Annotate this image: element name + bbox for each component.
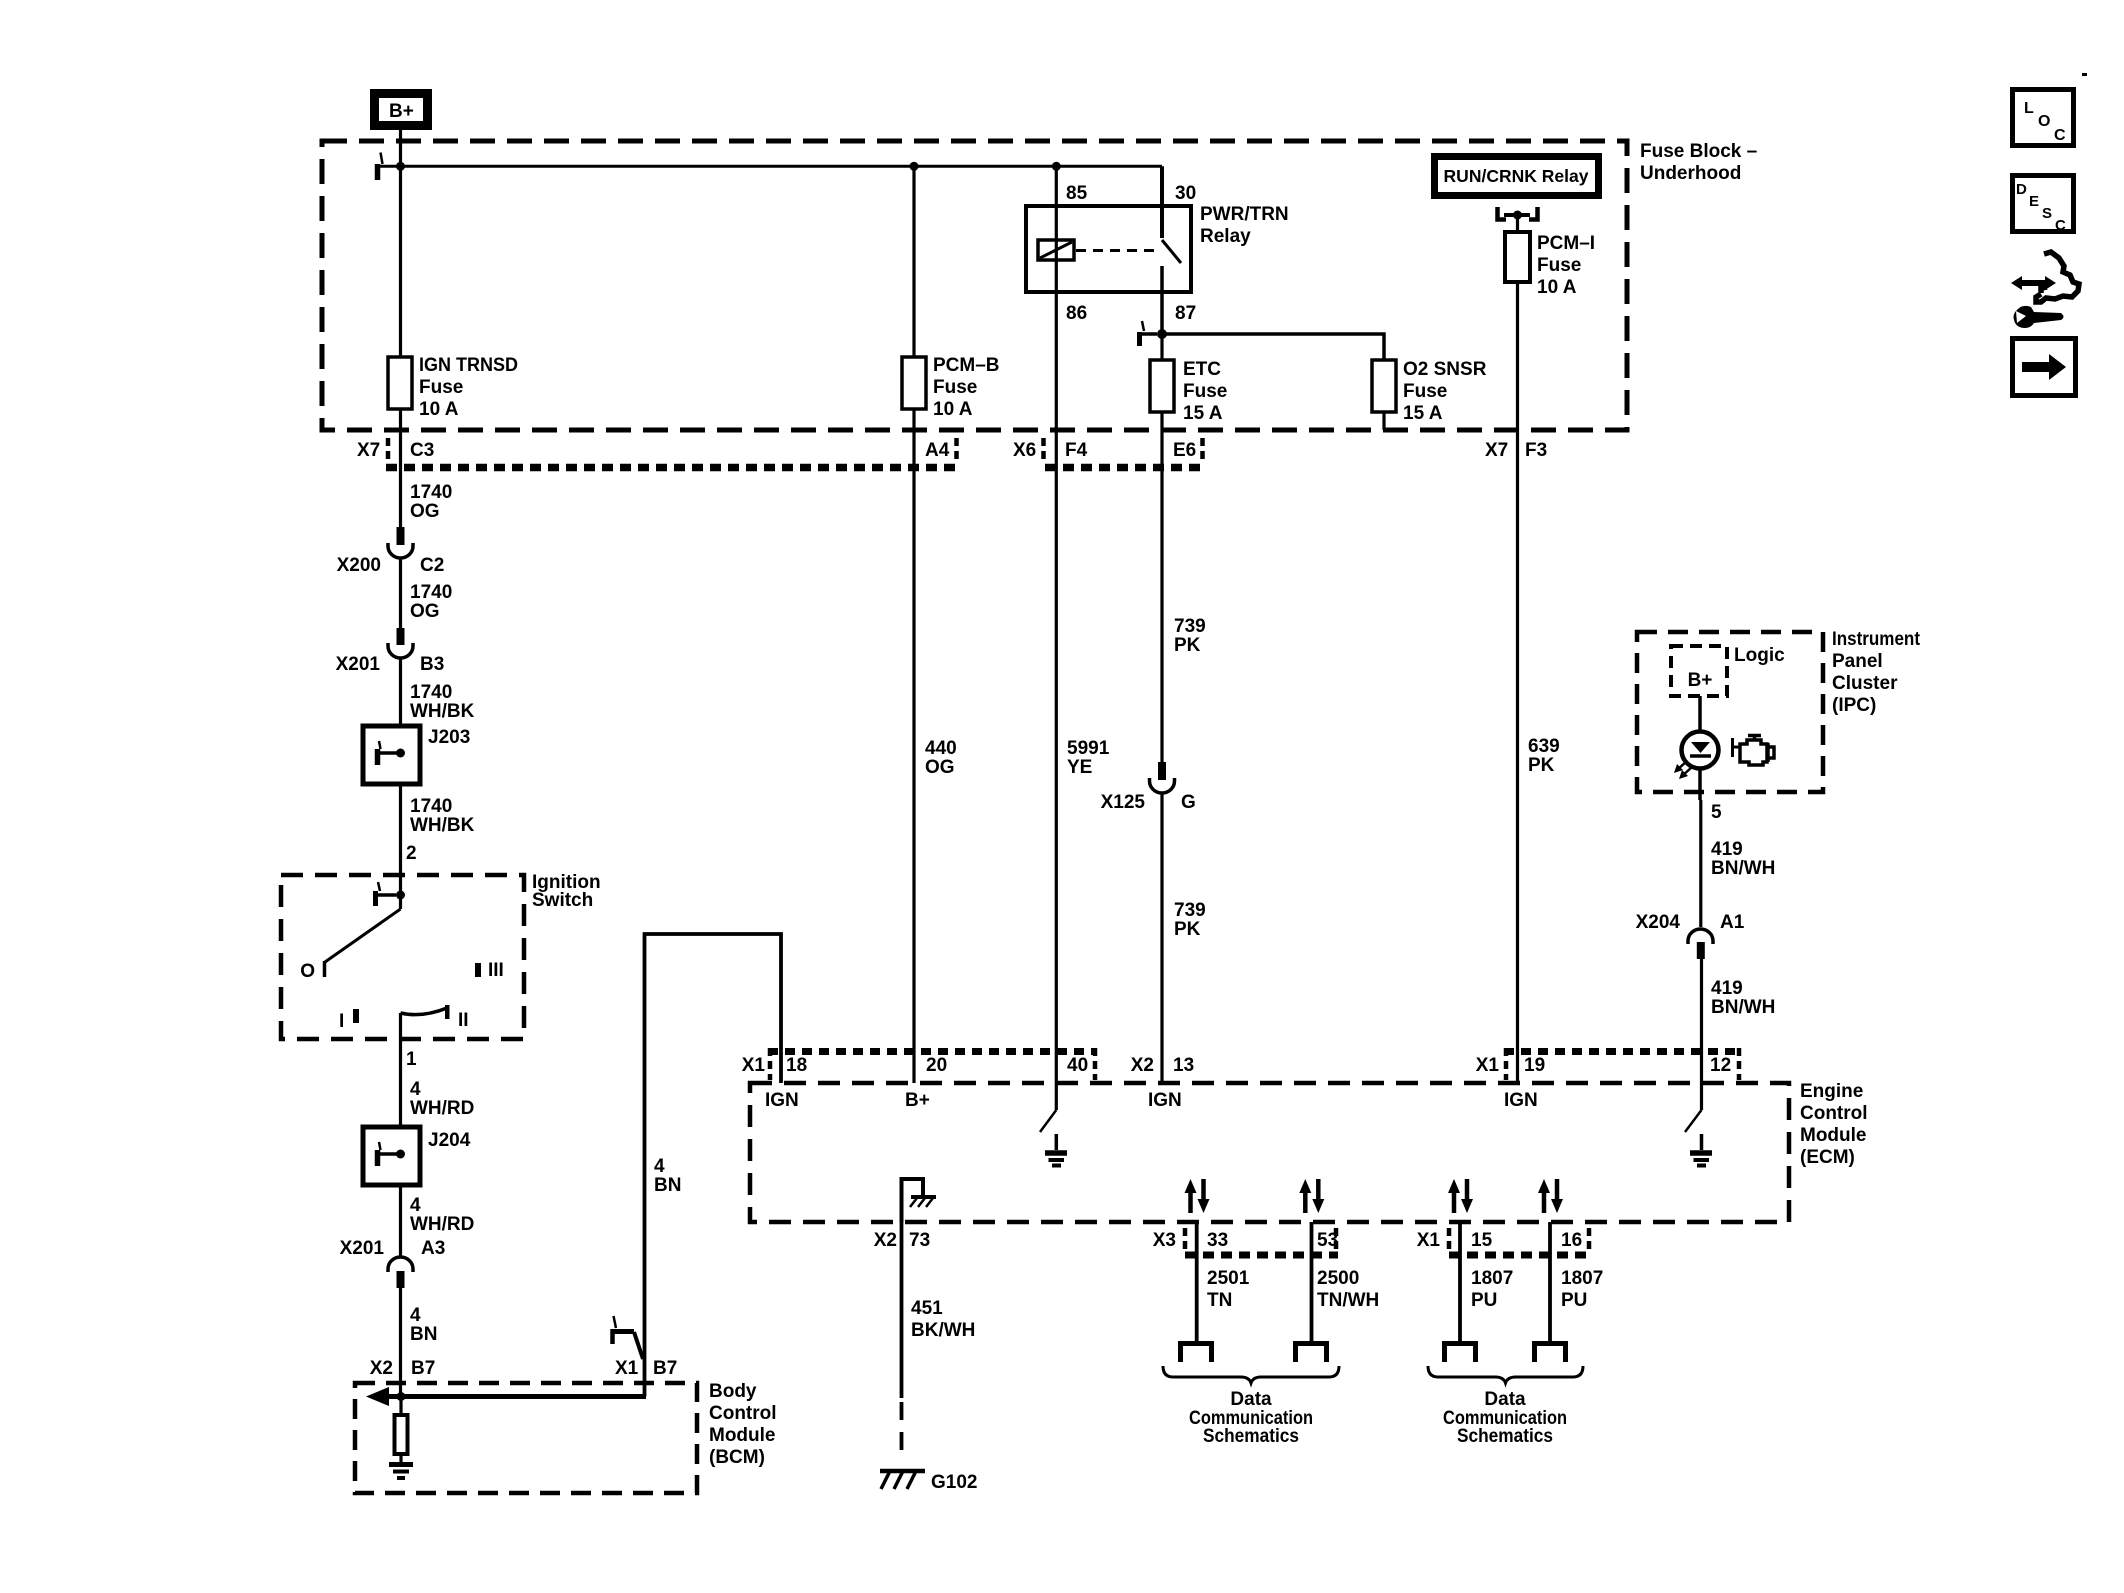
ECM bottom connector X1 dotted outline bbox=[1449, 1228, 1591, 1255]
svg-text:PCM–I: PCM–I bbox=[1537, 233, 1595, 254]
wire ECM pin 15 drop bbox=[1458, 1222, 1462, 1341]
wire label 2501 TN bbox=[1207, 1268, 1250, 1311]
svg-text:C3: C3 bbox=[410, 440, 434, 461]
svg-text:RUN/CRNK Relay: RUN/CRNK Relay bbox=[1444, 166, 1589, 186]
svg-text:F4: F4 bbox=[1065, 440, 1088, 461]
icon DESC box bbox=[2013, 176, 2074, 235]
svg-text:TN/WH: TN/WH bbox=[1317, 1290, 1379, 1311]
wire label 5991 YE bbox=[1067, 738, 1110, 778]
off-page terminator pin 16 bbox=[1535, 1344, 1566, 1363]
svg-text:D: D bbox=[2016, 181, 2027, 198]
IPC logic box bbox=[1671, 645, 1785, 696]
svg-text:Fuse: Fuse bbox=[933, 377, 977, 398]
svg-text:III: III bbox=[488, 960, 504, 981]
wire X204 to ECM pin 12 bbox=[1700, 959, 1703, 1083]
svg-text:WH/RD: WH/RD bbox=[410, 1098, 474, 1119]
svg-text:X1: X1 bbox=[1476, 1055, 1500, 1076]
wire ECM pin 73 to G102 bbox=[900, 1222, 904, 1398]
wire ECM pin 33 drop bbox=[1195, 1222, 1199, 1341]
wire 87 junction to ETC fuse bbox=[1160, 334, 1163, 361]
svg-text:86: 86 bbox=[1066, 303, 1087, 324]
wire ECM pin 53 drop bbox=[1310, 1222, 1314, 1341]
svg-text:PK: PK bbox=[1528, 755, 1555, 776]
wire J204 to X201 A3 bbox=[399, 1185, 402, 1257]
svg-text:Module: Module bbox=[1800, 1125, 1867, 1146]
node junction at PWR/TRN coil tap bbox=[1052, 162, 1061, 171]
connector X204 A1 inline bbox=[1636, 912, 1745, 959]
ECM bottom pin labels bbox=[1153, 1230, 1582, 1251]
svg-text:1: 1 bbox=[406, 1049, 417, 1070]
wire O2 fuse to block edge bbox=[1382, 412, 1385, 430]
wire logic to LED bbox=[1698, 696, 1702, 732]
wire label 1807 PU second bbox=[1561, 1268, 1603, 1311]
fuse ETC 15A bbox=[1150, 359, 1227, 424]
svg-text:Panel: Panel bbox=[1832, 651, 1883, 672]
svg-text:Switch: Switch bbox=[532, 890, 593, 911]
svg-text:BN/WH: BN/WH bbox=[1711, 858, 1775, 879]
svg-text:A4: A4 bbox=[925, 440, 950, 461]
off-page terminator pin 15 bbox=[1445, 1344, 1476, 1363]
icon harness routing bbox=[2011, 252, 2079, 328]
IPC box bbox=[1637, 629, 1921, 792]
ECM bottom connector X3 dotted outline bbox=[1185, 1228, 1338, 1255]
wire LED to IPC pin 5 bbox=[1698, 768, 1702, 800]
svg-text:BN: BN bbox=[654, 1175, 681, 1196]
brace data link 2 bbox=[1428, 1366, 1583, 1383]
svg-text:Fuse: Fuse bbox=[1183, 381, 1227, 402]
wire label 4 BN riser bbox=[654, 1156, 681, 1196]
svg-text:73: 73 bbox=[909, 1230, 930, 1251]
svg-text:WH/RD: WH/RD bbox=[410, 1214, 474, 1235]
svg-text:WH/BK: WH/BK bbox=[410, 701, 475, 722]
svg-text:B+: B+ bbox=[389, 101, 414, 122]
svg-text:X125: X125 bbox=[1101, 792, 1146, 813]
svg-text:85: 85 bbox=[1066, 183, 1088, 204]
svg-text:X201: X201 bbox=[340, 1238, 385, 1259]
svg-text:J203: J203 bbox=[428, 727, 470, 748]
terminal III tick bbox=[475, 963, 481, 977]
ECM pin 73 internal chassis ground bbox=[902, 1179, 937, 1222]
BCM internal arrow bbox=[366, 1387, 646, 1406]
svg-text:Schematics: Schematics bbox=[1203, 1426, 1299, 1447]
wire ECM pin 16 drop bbox=[1548, 1222, 1552, 1341]
brace data link 1 bbox=[1163, 1366, 1339, 1383]
wire label 1740 WH/BK bbox=[410, 682, 475, 722]
svg-text:G: G bbox=[1181, 792, 1196, 813]
wire X200 to X201 bbox=[399, 558, 402, 628]
svg-text:1740: 1740 bbox=[410, 682, 452, 703]
svg-text:X1: X1 bbox=[1417, 1230, 1441, 1251]
svg-text:18: 18 bbox=[786, 1055, 807, 1076]
wire relay coil to pin 86 / F4 bbox=[1055, 260, 1058, 1083]
ground G102 bbox=[880, 1471, 977, 1493]
wire 739 PK ETC fuse down to ECM pin 13 bbox=[1160, 412, 1163, 762]
svg-text:Fuse Block –: Fuse Block – bbox=[1640, 141, 1757, 162]
engine icon bbox=[1733, 736, 1775, 766]
ECM top connector X1 dotted outline bbox=[768, 1048, 1097, 1080]
svg-text:Underhood: Underhood bbox=[1640, 163, 1741, 184]
svg-text:5991: 5991 bbox=[1067, 738, 1110, 759]
svg-text:C: C bbox=[2054, 127, 2066, 144]
wire label 639 PK bbox=[1528, 736, 1560, 776]
svg-text:PU: PU bbox=[1471, 1290, 1497, 1311]
svg-text:739: 739 bbox=[1174, 900, 1206, 921]
BCM box bbox=[355, 1381, 777, 1493]
wire 639 PK PCM-I fuse down to ECM pin 19 bbox=[1516, 282, 1519, 1083]
svg-text:Body: Body bbox=[709, 1381, 757, 1402]
wire label 4 WH/RD bbox=[410, 1079, 474, 1119]
ignition switch box bbox=[281, 872, 601, 1039]
svg-text:10 A: 10 A bbox=[933, 399, 973, 420]
fuse PCM-B 10A bbox=[902, 355, 1000, 420]
connector X2 73 labels bbox=[874, 1230, 930, 1251]
fuse block label bbox=[1640, 141, 1757, 184]
wire label 739 PK lower bbox=[1174, 900, 1206, 940]
wire B+ drop bbox=[399, 130, 402, 166]
relay actuator dashed link bbox=[1076, 249, 1157, 252]
svg-text:2501: 2501 bbox=[1207, 1268, 1250, 1289]
svg-text:19: 19 bbox=[1524, 1055, 1545, 1076]
svg-text:A1: A1 bbox=[1720, 912, 1745, 933]
svg-text:419: 419 bbox=[1711, 978, 1743, 999]
ECM top connector X1 right dotted outline bbox=[1504, 1048, 1741, 1080]
wire IGN TRNSD branch upper bbox=[399, 166, 402, 357]
svg-text:16: 16 bbox=[1561, 1230, 1582, 1251]
svg-text:PK: PK bbox=[1174, 635, 1201, 656]
wire contact to PCM-I fuse bbox=[1516, 215, 1519, 232]
connector X201 B3 inline bbox=[336, 628, 445, 675]
connector X201 A3 inline bbox=[340, 1238, 446, 1288]
svg-text:20: 20 bbox=[926, 1055, 947, 1076]
switch blade to O bbox=[399, 895, 402, 909]
ECM box bbox=[750, 1081, 1868, 1222]
svg-text:B+: B+ bbox=[1688, 670, 1713, 691]
clip terminal at X1 B7 bbox=[611, 1316, 643, 1359]
relay RUN/CRNK contact bbox=[1498, 207, 1538, 220]
wire label 451 BK/WH bbox=[911, 1298, 975, 1341]
svg-text:X7: X7 bbox=[357, 440, 380, 461]
splice J204 bbox=[363, 1127, 471, 1185]
svg-text:X200: X200 bbox=[337, 555, 381, 576]
svg-text:1740: 1740 bbox=[410, 796, 452, 817]
relay switch blade bbox=[1162, 240, 1181, 263]
svg-text:BK/WH: BK/WH bbox=[911, 1320, 975, 1341]
svg-text:Instrument: Instrument bbox=[1832, 629, 1921, 650]
svg-text:YE: YE bbox=[1067, 757, 1092, 778]
svg-text:BN/WH: BN/WH bbox=[1711, 997, 1775, 1018]
svg-text:53: 53 bbox=[1317, 1230, 1338, 1251]
svg-text:4: 4 bbox=[410, 1195, 421, 1216]
svg-text:X204: X204 bbox=[1636, 912, 1681, 933]
splice J203 bbox=[363, 726, 470, 784]
data communication text 1 bbox=[1189, 1389, 1313, 1447]
svg-text:BN: BN bbox=[410, 1324, 437, 1345]
svg-text:1807: 1807 bbox=[1471, 1268, 1513, 1289]
svg-text:II: II bbox=[458, 1010, 469, 1031]
svg-text:13: 13 bbox=[1173, 1055, 1194, 1076]
svg-text:451: 451 bbox=[911, 1298, 943, 1319]
ECM serial data arrows pin 33 bbox=[1185, 1179, 1210, 1213]
wire label 4 BN bbox=[410, 1305, 437, 1345]
svg-text:5: 5 bbox=[1711, 802, 1722, 823]
top-right tick bbox=[2082, 73, 2087, 76]
svg-text:Control: Control bbox=[709, 1403, 777, 1424]
svg-text:Data: Data bbox=[1230, 1389, 1272, 1410]
svg-text:30: 30 bbox=[1175, 183, 1196, 204]
clip terminal at 87 junction bbox=[1140, 321, 1158, 346]
svg-text:(ECM): (ECM) bbox=[1800, 1147, 1855, 1168]
svg-text:X3: X3 bbox=[1153, 1230, 1176, 1251]
ECM serial data arrows pin 15 bbox=[1448, 1179, 1473, 1213]
BCM internal load element bbox=[395, 1392, 408, 1462]
LED indicator bbox=[1674, 732, 1719, 780]
svg-text:B7: B7 bbox=[411, 1358, 435, 1379]
svg-text:(IPC): (IPC) bbox=[1832, 695, 1876, 716]
svg-text:X201: X201 bbox=[336, 654, 381, 675]
svg-text:L: L bbox=[2024, 100, 2034, 117]
svg-text:4: 4 bbox=[410, 1079, 421, 1100]
terminal II contact arc bbox=[401, 1008, 448, 1015]
svg-text:Engine: Engine bbox=[1800, 1081, 1863, 1102]
wire 440 OG PCM-B fuse down to ECM pin 20 bbox=[912, 409, 915, 1083]
wire PCM-B branch upper bbox=[912, 166, 915, 357]
relay coil bbox=[1038, 240, 1074, 260]
svg-text:739: 739 bbox=[1174, 616, 1206, 637]
svg-text:Schematics: Schematics bbox=[1457, 1426, 1553, 1447]
svg-text:O2 SNSR: O2 SNSR bbox=[1403, 359, 1487, 380]
wire label 1740 WH/BK second bbox=[410, 796, 475, 836]
svg-text:TN: TN bbox=[1207, 1290, 1232, 1311]
ECM internal pin names bbox=[765, 1090, 1538, 1111]
wire X201 A3 to BCM bbox=[399, 1288, 402, 1397]
svg-text:Module: Module bbox=[709, 1425, 776, 1446]
ECM serial data arrows pin 16 bbox=[1538, 1179, 1563, 1213]
svg-text:X1: X1 bbox=[742, 1055, 766, 1076]
svg-text:F3: F3 bbox=[1525, 440, 1547, 461]
svg-text:PWR/TRN: PWR/TRN bbox=[1200, 204, 1289, 225]
clip terminal at bus left end bbox=[378, 153, 383, 181]
svg-text:Control: Control bbox=[1800, 1103, 1868, 1124]
svg-text:PK: PK bbox=[1174, 919, 1201, 940]
svg-text:X6: X6 bbox=[1013, 440, 1036, 461]
svg-text:PU: PU bbox=[1561, 1290, 1587, 1311]
fuse O2 SNSR 15A bbox=[1372, 359, 1487, 424]
wire label 4 WH/RD second bbox=[410, 1195, 474, 1235]
terminal O tick bbox=[323, 961, 327, 977]
svg-text:OG: OG bbox=[925, 757, 955, 778]
connector X7/C3-A4 dotted outline bbox=[386, 438, 959, 468]
wire label 440 OG bbox=[925, 738, 957, 778]
svg-text:4: 4 bbox=[654, 1156, 665, 1177]
wire IGN TRNSD fuse to X200 bbox=[399, 409, 402, 528]
wire pin 87 stub bbox=[1160, 266, 1164, 334]
node junction at B+ drop bbox=[396, 162, 405, 171]
svg-text:E6: E6 bbox=[1173, 440, 1196, 461]
wire label 739 PK upper bbox=[1174, 616, 1206, 656]
svg-text:X7: X7 bbox=[1485, 440, 1508, 461]
svg-text:B3: B3 bbox=[420, 654, 444, 675]
svg-text:IGN: IGN bbox=[1148, 1090, 1182, 1111]
connector X2 B7 labels bbox=[370, 1358, 436, 1379]
svg-text:A3: A3 bbox=[421, 1238, 445, 1259]
svg-text:IGN TRNSD: IGN TRNSD bbox=[419, 355, 518, 376]
svg-text:87: 87 bbox=[1175, 303, 1196, 324]
relay RUN/CRNK label box bbox=[1435, 157, 1599, 196]
svg-text:Cluster: Cluster bbox=[1832, 673, 1898, 694]
wire label 419 BN/WH bbox=[1711, 839, 1775, 879]
svg-text:B7: B7 bbox=[653, 1358, 677, 1379]
svg-text:2: 2 bbox=[406, 843, 417, 864]
wire relay coil feed bbox=[1055, 166, 1058, 262]
svg-text:C: C bbox=[2055, 217, 2066, 234]
node switch common junction bbox=[396, 891, 405, 900]
svg-text:440: 440 bbox=[925, 738, 957, 759]
connector X200 C2 inline bbox=[337, 527, 445, 576]
BCM internal ground bbox=[389, 1465, 413, 1479]
svg-text:PCM–B: PCM–B bbox=[933, 355, 1000, 376]
wire label 1807 PU bbox=[1471, 1268, 1513, 1311]
svg-text:15: 15 bbox=[1471, 1230, 1493, 1251]
svg-text:15 A: 15 A bbox=[1403, 403, 1443, 424]
fuse IGN TRNSD 10A bbox=[388, 355, 518, 420]
data communication text 2 bbox=[1443, 1389, 1567, 1447]
connector X6/F4-E6 dotted outline bbox=[1044, 438, 1206, 468]
wire 4 BN BCM X1 B7 riser bbox=[645, 934, 782, 1397]
wire X125 to ECM pin 13 bbox=[1160, 793, 1163, 1083]
svg-text:Fuse: Fuse bbox=[1403, 381, 1447, 402]
svg-text:(BCM): (BCM) bbox=[709, 1447, 765, 1468]
wire B+ feed bus bbox=[377, 165, 1163, 168]
terminal II tick bbox=[445, 1005, 450, 1019]
svg-text:I: I bbox=[339, 1011, 344, 1032]
wire X201 to J203 bbox=[399, 658, 402, 726]
svg-text:B+: B+ bbox=[905, 1090, 930, 1111]
svg-text:O: O bbox=[2038, 113, 2050, 130]
wire label 2500 TN/WH bbox=[1317, 1268, 1379, 1311]
off-page terminator pin 33 bbox=[1181, 1344, 1212, 1363]
svg-text:Relay: Relay bbox=[1200, 226, 1251, 247]
svg-text:10 A: 10 A bbox=[419, 399, 459, 420]
svg-text:IGN: IGN bbox=[1504, 1090, 1538, 1111]
svg-text:X2: X2 bbox=[874, 1230, 897, 1251]
off-page terminator pin 53 bbox=[1296, 1344, 1327, 1363]
wire label 1740 OG bbox=[410, 482, 452, 522]
svg-text:E: E bbox=[2029, 193, 2039, 210]
svg-text:1740: 1740 bbox=[410, 582, 452, 603]
wire label 1740 OG second bbox=[410, 582, 452, 622]
ECM pin 12 internal ground switch bbox=[1685, 1083, 1712, 1166]
wire 87 junction to O2 fuse bbox=[1162, 334, 1384, 360]
svg-text:S: S bbox=[2042, 205, 2052, 222]
svg-text:639: 639 bbox=[1528, 736, 1560, 757]
svg-text:OG: OG bbox=[410, 501, 440, 522]
ECM pin 40 internal ground switch bbox=[1040, 1083, 1067, 1166]
svg-text:Fuse: Fuse bbox=[419, 377, 463, 398]
svg-text:33: 33 bbox=[1207, 1230, 1228, 1251]
svg-text:15 A: 15 A bbox=[1183, 403, 1223, 424]
svg-text:J204: J204 bbox=[428, 1130, 471, 1151]
svg-text:Logic: Logic bbox=[1734, 645, 1785, 666]
connector X125 G inline bbox=[1101, 762, 1196, 813]
svg-text:G102: G102 bbox=[931, 1472, 977, 1493]
ECM serial data arrows pin 53 bbox=[1299, 1179, 1324, 1213]
svg-text:O: O bbox=[300, 961, 315, 982]
wire switch output to J204 bbox=[399, 1013, 402, 1127]
svg-text:OG: OG bbox=[410, 601, 440, 622]
icon LOC box bbox=[2013, 90, 2074, 146]
svg-text:X1: X1 bbox=[615, 1358, 639, 1379]
wire IPC to X204 bbox=[1699, 800, 1702, 927]
wire pin 30 from bus bbox=[1160, 166, 1164, 238]
svg-text:WH/BK: WH/BK bbox=[410, 815, 475, 836]
icon arrow box bbox=[2013, 339, 2076, 396]
svg-text:Fuse: Fuse bbox=[1537, 255, 1581, 276]
connector row under fuse block bbox=[357, 440, 1547, 461]
svg-text:4: 4 bbox=[410, 1305, 421, 1326]
svg-text:10 A: 10 A bbox=[1537, 277, 1577, 298]
svg-text:Data: Data bbox=[1484, 1389, 1526, 1410]
svg-text:419: 419 bbox=[1711, 839, 1743, 860]
ECM top pin labels bbox=[742, 1055, 1731, 1076]
terminal I tick bbox=[353, 1009, 359, 1023]
relay PWR/TRN box bbox=[1026, 204, 1289, 292]
wire J203 to ignition switch bbox=[399, 784, 402, 895]
svg-text:IGN: IGN bbox=[765, 1090, 799, 1111]
fuse PCM-I 10A bbox=[1505, 232, 1595, 298]
node junction at PCM-B tap bbox=[910, 162, 919, 171]
svg-text:ETC: ETC bbox=[1183, 359, 1221, 380]
fuse block underhood box bbox=[322, 141, 1627, 430]
clip terminal at switch common bbox=[376, 882, 397, 906]
svg-text:X2: X2 bbox=[1131, 1055, 1154, 1076]
svg-text:X2: X2 bbox=[370, 1358, 393, 1379]
svg-text:1740: 1740 bbox=[410, 482, 452, 503]
connector X1 B7 labels bbox=[615, 1358, 677, 1379]
B+ power symbol bbox=[375, 94, 428, 126]
svg-text:40: 40 bbox=[1067, 1055, 1088, 1076]
svg-text:2500: 2500 bbox=[1317, 1268, 1359, 1289]
wire label 419 BN/WH second bbox=[1711, 978, 1775, 1018]
svg-text:C2: C2 bbox=[420, 555, 444, 576]
node junction at pin 87 branch bbox=[1157, 329, 1167, 339]
svg-text:12: 12 bbox=[1710, 1055, 1731, 1076]
svg-text:1807: 1807 bbox=[1561, 1268, 1603, 1289]
